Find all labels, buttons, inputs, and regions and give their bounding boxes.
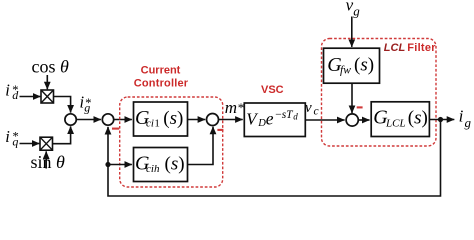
LCL Filter dashed box (322, 39, 437, 147)
svg-text:i: i (459, 106, 464, 125)
junction on feedback to Gcih (105, 162, 110, 167)
svg-text:(s): (s) (354, 55, 374, 76)
svg-text:Current: Current (141, 65, 181, 77)
svg-text:Controller: Controller (134, 78, 189, 90)
summer S4 (346, 114, 358, 126)
svg-text:Filter: Filter (407, 42, 436, 54)
minus sign at S3 lower input (217, 129, 223, 131)
wire iq* to multiplier M2 (20, 143, 40, 145)
minus sign at S4 top input (357, 106, 363, 108)
svg-text:fw: fw (340, 65, 351, 77)
feedback wire from output to S2 (108, 120, 441, 197)
svg-text:g: g (84, 101, 90, 115)
summer S2 (102, 114, 113, 125)
block Gcih(s) (134, 148, 188, 182)
svg-text:e: e (266, 108, 274, 128)
svg-text:VSC: VSC (261, 84, 284, 96)
multiplier M1 (cos branch) (41, 90, 54, 103)
wire Gcih to summer S3 (188, 127, 214, 165)
wire feedback junction to Gcih (108, 164, 132, 166)
svg-text:(s): (s) (163, 108, 183, 129)
wire vg to Gfw (351, 17, 353, 47)
junction at output (438, 117, 443, 122)
svg-text:cih: cih (146, 163, 160, 175)
svg-text:sin θ: sin θ (31, 152, 66, 172)
wire M2 to summer S1 (53, 126, 71, 143)
svg-text:(s): (s) (165, 153, 185, 174)
svg-text:m: m (225, 98, 237, 117)
wire M1 to summer S1 (54, 97, 71, 113)
wire S2 to Gci1 (114, 119, 132, 121)
svg-text:q: q (12, 135, 18, 149)
summer S1 (65, 114, 76, 125)
svg-text:v: v (305, 100, 312, 116)
svg-text:g: g (353, 3, 360, 18)
block Gfw(s) (324, 48, 380, 83)
wire S1 to summer S2 (76, 119, 101, 121)
wire Gfw to summer S4 (351, 83, 353, 113)
svg-text:LCL: LCL (384, 42, 406, 54)
svg-text:LCL: LCL (385, 118, 406, 130)
multiplier M2 (sin branch) (40, 137, 53, 150)
svg-text:*: * (238, 100, 245, 115)
svg-text:−sT: −sT (275, 109, 294, 121)
svg-text:ci: ci (146, 118, 154, 130)
svg-text:d: d (293, 111, 298, 121)
wire S4 to GLCL (358, 119, 369, 121)
wire sin theta to multiplier M2 (45, 151, 47, 168)
wire VSC to summer S4 (305, 119, 344, 121)
wire S3 to VSC with node m* (219, 119, 243, 121)
svg-text:cos θ: cos θ (32, 57, 70, 77)
wire cos theta to multiplier M1 (46, 75, 48, 89)
svg-text:i: i (5, 81, 10, 100)
svg-text:c: c (314, 106, 319, 118)
block VSC VD e^-sTd (244, 103, 305, 137)
block Gci1(s) (134, 102, 188, 136)
minus sign at S2 feedback input (112, 128, 119, 130)
wire Gci1 to summer S3 (188, 119, 206, 121)
svg-text:1: 1 (154, 118, 160, 130)
block GLCL(s) (371, 102, 429, 137)
Current Controller dashed box (120, 97, 223, 187)
summer S3 (207, 114, 219, 126)
svg-text:g: g (465, 115, 472, 130)
svg-text:(s): (s) (408, 107, 428, 128)
svg-text:d: d (12, 88, 19, 102)
wire id* to multiplier M1 (20, 96, 41, 98)
wire GLCL to output ig (429, 119, 454, 121)
svg-text:i: i (5, 127, 10, 146)
